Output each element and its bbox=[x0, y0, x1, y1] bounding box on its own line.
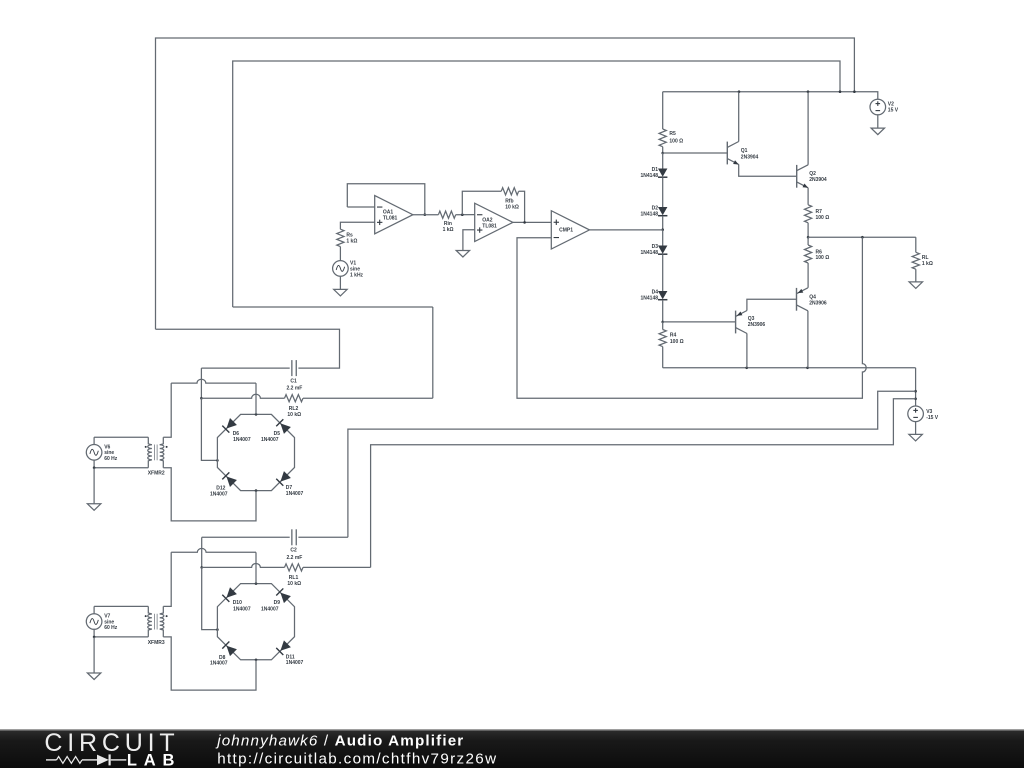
svg-text:2N3904: 2N3904 bbox=[809, 177, 827, 183]
svg-text:D10: D10 bbox=[233, 600, 242, 606]
svg-text:C2: C2 bbox=[290, 548, 297, 554]
svg-text:D2: D2 bbox=[652, 205, 659, 211]
wire D1 to D2 bbox=[662, 177, 664, 207]
wire R7 to OUT node bbox=[807, 223, 809, 237]
wire V6 ground stem bbox=[93, 468, 95, 504]
node rail-Q4 bbox=[806, 367, 809, 370]
resistor RL1 wire left bbox=[202, 564, 285, 568]
wire V7 top bbox=[93, 606, 95, 613]
resistor R7 bbox=[805, 205, 812, 223]
wire bridge1 bottom feed bbox=[163, 468, 256, 521]
diode D10 bbox=[226, 587, 236, 597]
wire Rin to OA2 bbox=[456, 214, 475, 216]
svg-text:johnnyhawk6 / Audio Amplifier: johnnyhawk6 / Audio Amplifier bbox=[215, 732, 464, 749]
transformer XFMR2 phase dots bbox=[145, 446, 147, 448]
ground V1 bbox=[334, 289, 347, 296]
node CMP1out-Dchain bbox=[661, 228, 664, 231]
resistor RL bbox=[912, 252, 919, 269]
node V3-RL1loop bbox=[914, 398, 917, 401]
wire RL2-loop right segment bbox=[233, 306, 433, 308]
svg-text:60 Hz: 60 Hz bbox=[104, 456, 118, 462]
svg-text:D1: D1 bbox=[652, 167, 659, 173]
wire xfmr2 top left bbox=[163, 383, 171, 437]
resistor RL2 wire left bbox=[201, 394, 284, 398]
footer bar bbox=[0, 729, 1024, 768]
node R5-D1-Q1base bbox=[661, 152, 664, 155]
op-amp CMP1 bbox=[551, 211, 589, 249]
wire Q3 base bbox=[663, 321, 736, 323]
ground V7 bbox=[87, 673, 100, 680]
node OA2out-Rfb bbox=[523, 221, 526, 224]
voltage source V7 bbox=[86, 614, 102, 630]
wire V7 ground stem bbox=[93, 637, 95, 673]
svg-text:-15 V: -15 V bbox=[926, 415, 939, 421]
bridge rectifier 2 octagon bbox=[217, 584, 294, 660]
wire node to D1 bbox=[662, 153, 664, 169]
wire OUT to RL bbox=[915, 237, 917, 252]
diode D9 bbox=[280, 593, 290, 603]
svg-text:100 Ω: 100 Ω bbox=[816, 215, 830, 221]
wire RL2-loop down segment bbox=[432, 307, 434, 398]
resistor RL2 bbox=[285, 395, 304, 402]
node Rin-Rfb bbox=[461, 213, 464, 216]
diode D3 bbox=[658, 246, 667, 254]
wire C2 down bbox=[201, 537, 203, 567]
diode D4 bbox=[658, 291, 667, 299]
wire Q3emitter-Q4base bbox=[747, 299, 797, 310]
node bridge1 left junction bbox=[216, 459, 219, 462]
node V6-ground bbox=[93, 466, 96, 469]
svg-text:TL081: TL081 bbox=[482, 223, 497, 229]
svg-text:60 Hz: 60 Hz bbox=[104, 625, 118, 631]
ground RL bbox=[909, 282, 922, 289]
node D4-R4-Q3base bbox=[661, 321, 664, 324]
wire Q1 emitter to Q2 base bbox=[739, 164, 797, 176]
svg-text:1N4007: 1N4007 bbox=[210, 491, 228, 497]
wire Rfb left bbox=[462, 191, 501, 214]
svg-text:Q1: Q1 bbox=[741, 148, 748, 154]
transistor Q4 2N3906 bbox=[796, 288, 798, 311]
wire OUT feedback bbox=[517, 237, 866, 398]
capacitor C2 bbox=[291, 529, 293, 545]
node R7-R6-out bbox=[807, 236, 810, 239]
svg-text:1 kHz: 1 kHz bbox=[350, 272, 364, 278]
node C2-RL1 bbox=[200, 566, 203, 569]
op-amp OA1 bbox=[375, 196, 413, 234]
wire R6 top bbox=[807, 237, 809, 245]
wire -rail to V3 node bbox=[915, 368, 917, 406]
svg-text:XFMR3: XFMR3 bbox=[148, 640, 165, 646]
wire Q2 collector bbox=[807, 92, 809, 165]
svg-text:10 kΩ: 10 kΩ bbox=[505, 204, 519, 210]
svg-text:2.2 mF: 2.2 mF bbox=[287, 555, 303, 561]
svg-text:1 kΩ: 1 kΩ bbox=[443, 227, 454, 233]
wire D3 to D4 bbox=[662, 254, 664, 291]
diode D11 bbox=[280, 640, 290, 650]
wire xfmr2 top bbox=[171, 379, 256, 383]
wire OA1 feedback bbox=[347, 184, 425, 215]
wire C1-loop to V2 rail (top outer) bbox=[156, 38, 855, 329]
wire bridge2 bottom feed bbox=[163, 637, 256, 690]
svg-text:1N4148: 1N4148 bbox=[640, 173, 658, 179]
svg-text:10 kΩ: 10 kΩ bbox=[287, 412, 301, 418]
wire V1 to ground bbox=[339, 276, 341, 289]
transformer XFMR3 secondary coil bbox=[160, 606, 164, 637]
wire C2 node to bridge bbox=[202, 567, 218, 629]
node rail-Q2 bbox=[807, 90, 810, 93]
ground OA2 plus bbox=[456, 251, 469, 258]
wire RL2-loop to V2 rail (top inner) bbox=[233, 61, 840, 307]
svg-text:2.2 mF: 2.2 mF bbox=[287, 386, 303, 392]
svg-text:100 Ω: 100 Ω bbox=[670, 339, 684, 345]
svg-text:D5: D5 bbox=[274, 431, 281, 437]
wire Q4 collector bbox=[807, 311, 809, 368]
wire C2 left bbox=[202, 536, 290, 538]
svg-text:15 V: 15 V bbox=[888, 107, 899, 113]
voltage source V6 bbox=[86, 445, 102, 461]
svg-text:1N4148: 1N4148 bbox=[640, 250, 658, 256]
transformer XFMR2 core bbox=[154, 445, 156, 461]
node bridge2 bottom bbox=[255, 659, 258, 662]
wire rail to R5 bbox=[662, 92, 664, 129]
wire xfmr3 top bbox=[171, 548, 256, 552]
resistor Rin bbox=[438, 211, 455, 218]
ground V3 bbox=[909, 434, 922, 441]
wire +15V rail bbox=[663, 92, 878, 100]
voltage source V1 bbox=[333, 261, 349, 277]
wire Q2 emitter to R7 bbox=[807, 188, 809, 205]
node bridge1 bottom bbox=[255, 489, 258, 492]
logo resistor-diode glyph bbox=[46, 759, 57, 761]
svg-text:http://circuitlab.com/chtfhv79: http://circuitlab.com/chtfhv79rz26w bbox=[217, 750, 497, 767]
wire node to D3 bbox=[662, 230, 664, 246]
wire node to R4 bbox=[662, 322, 664, 330]
node rail-Q3 bbox=[745, 367, 748, 370]
wire bridge1 top feed bbox=[255, 383, 257, 414]
transistor Q1 2N3904 bbox=[726, 142, 728, 165]
svg-text:1N4007: 1N4007 bbox=[233, 437, 251, 443]
svg-text:1N4007: 1N4007 bbox=[261, 437, 279, 443]
svg-text:1N4007: 1N4007 bbox=[286, 660, 304, 666]
capacitor C1 bbox=[291, 360, 293, 376]
wire Q3 collector bbox=[746, 334, 748, 368]
transformer XFMR3 core bbox=[154, 614, 156, 630]
wire C1 down bbox=[200, 368, 202, 398]
transformer XFMR2 primary coil bbox=[148, 437, 152, 468]
svg-text:CMP1: CMP1 bbox=[559, 228, 573, 234]
wire C1 right bbox=[156, 329, 340, 368]
wire Q1 collector bbox=[738, 92, 740, 142]
svg-text:C1: C1 bbox=[290, 378, 297, 384]
node rail-Q1 bbox=[738, 90, 741, 93]
resistor RL1 bbox=[285, 564, 304, 571]
node OA1 out bbox=[424, 213, 427, 216]
resistor R4 bbox=[659, 330, 666, 347]
svg-text:1 kΩ: 1 kΩ bbox=[922, 261, 933, 267]
wire CMP1 output bbox=[590, 229, 663, 231]
wire D2 to CMP1 node bbox=[662, 216, 664, 230]
ground V6 bbox=[87, 504, 100, 511]
wire V2 to ground bbox=[877, 115, 879, 128]
svg-text:2N3906: 2N3906 bbox=[809, 300, 827, 306]
node V3-C2loop bbox=[914, 390, 917, 393]
wire OUT bbox=[808, 236, 916, 238]
wire C1 left bbox=[201, 367, 289, 369]
node OUT-feedback bbox=[861, 236, 864, 239]
wire V3 to ground bbox=[915, 422, 917, 435]
ground V2 bbox=[871, 128, 884, 135]
svg-text:R5: R5 bbox=[669, 131, 676, 137]
resistor Rfb bbox=[501, 188, 518, 195]
diode D12 bbox=[226, 477, 236, 487]
svg-text:LAB: LAB bbox=[127, 752, 181, 768]
wire Rs to V1 bbox=[339, 247, 341, 261]
diode D5 bbox=[280, 423, 290, 433]
wire RL1 right bbox=[303, 566, 371, 568]
wire C1 node to bridge bbox=[201, 398, 217, 460]
svg-text:1N4007: 1N4007 bbox=[233, 606, 251, 612]
svg-text:OA1: OA1 bbox=[383, 209, 394, 215]
diode D2 bbox=[658, 207, 667, 215]
node C1-RL2 bbox=[200, 397, 203, 400]
wire V6 bottom bbox=[93, 460, 95, 468]
voltage source V2 bbox=[870, 99, 886, 115]
resistor R6 bbox=[805, 245, 812, 263]
diode D8 bbox=[226, 646, 236, 656]
svg-text:1N4148: 1N4148 bbox=[640, 212, 658, 218]
svg-text:D9: D9 bbox=[274, 600, 281, 606]
transistor Q3 2N3906 bbox=[735, 311, 737, 334]
transistor Q2 2N3904 bbox=[796, 165, 798, 188]
svg-text:2N3904: 2N3904 bbox=[741, 154, 759, 160]
wire OA2 plus input bbox=[463, 230, 475, 251]
diode D6 bbox=[226, 418, 236, 428]
transformer XFMR3 left lead bottom bbox=[94, 636, 148, 638]
wire V3 to RL1 loop bbox=[371, 399, 916, 568]
wire R4 to -rail bbox=[662, 347, 664, 368]
svg-text:2N3906: 2N3906 bbox=[748, 322, 766, 328]
wire R6 to Q4 emitter bbox=[807, 263, 809, 288]
wire R5 to node bbox=[662, 147, 664, 153]
svg-text:D4: D4 bbox=[652, 289, 659, 295]
wire OA1 minus input bbox=[347, 206, 374, 208]
transformer XFMR2 left lead bottom bbox=[94, 467, 148, 469]
node rail-inner bbox=[839, 90, 842, 93]
node V7-ground bbox=[93, 636, 96, 639]
svg-text:1 kΩ: 1 kΩ bbox=[346, 239, 357, 245]
svg-text:D3: D3 bbox=[652, 244, 659, 250]
wire V6 top bbox=[93, 437, 95, 444]
svg-text:D6: D6 bbox=[233, 431, 240, 437]
wire RL to ground bbox=[915, 269, 917, 282]
wire OA1 output bbox=[413, 214, 439, 216]
wire V7 bottom bbox=[93, 629, 95, 637]
wire -15V rail bbox=[663, 367, 916, 369]
wire C2 right bbox=[298, 536, 348, 538]
svg-text:XFMR2: XFMR2 bbox=[148, 471, 165, 477]
diode D7 bbox=[280, 471, 290, 481]
svg-text:Q4: Q4 bbox=[809, 294, 816, 300]
transformer XFMR3 left lead top bbox=[94, 605, 148, 607]
transformer XFMR3 primary coil bbox=[148, 606, 152, 637]
resistor Rs bbox=[337, 229, 344, 246]
wire bridge2 top feed bbox=[255, 552, 257, 583]
svg-text:V1: V1 bbox=[350, 260, 356, 266]
wire Q1 base bbox=[663, 152, 728, 154]
wire OA1 plus input bbox=[340, 222, 374, 229]
wire D4 to Q3 node bbox=[662, 300, 664, 322]
diode D1 bbox=[658, 169, 667, 177]
svg-text:1N4007: 1N4007 bbox=[210, 661, 228, 667]
transformer XFMR3 phase dots bbox=[145, 615, 147, 617]
svg-text:10 kΩ: 10 kΩ bbox=[287, 581, 301, 587]
wire V3 to C2 loop bbox=[348, 391, 916, 537]
bridge rectifier 1 octagon bbox=[217, 414, 294, 490]
wire xfmr3 top left bbox=[163, 552, 171, 606]
svg-text:TL081: TL081 bbox=[383, 215, 398, 221]
svg-text:R4: R4 bbox=[670, 333, 677, 339]
svg-text:100 Ω: 100 Ω bbox=[669, 139, 683, 145]
svg-text:1N4007: 1N4007 bbox=[286, 491, 304, 497]
svg-text:1N4007: 1N4007 bbox=[261, 606, 279, 612]
voltage source V3 bbox=[908, 406, 924, 422]
node rail-outer bbox=[853, 90, 856, 93]
node bridge1 top bbox=[255, 413, 258, 416]
transformer XFMR2 left lead top bbox=[94, 436, 148, 438]
op-amp OA2 bbox=[475, 203, 513, 241]
svg-text:1N4148: 1N4148 bbox=[640, 296, 658, 302]
wire OA2 output bbox=[513, 221, 551, 223]
wire RL2 right bbox=[303, 397, 433, 399]
svg-text:100 Ω: 100 Ω bbox=[816, 255, 830, 261]
transformer XFMR2 secondary coil bbox=[160, 437, 164, 468]
wire Rfb right bbox=[519, 191, 525, 222]
node bridge2 left junction bbox=[216, 628, 219, 631]
resistor R5 bbox=[659, 129, 666, 147]
node bridge2 top bbox=[255, 582, 258, 585]
